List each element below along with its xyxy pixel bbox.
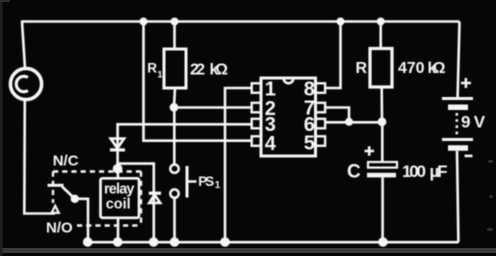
wire: +9V top rail	[21, 20, 460, 23]
wire: pin 8 Vcc wire	[325, 22, 341, 89]
svg-text:coil: coil	[106, 197, 131, 213]
wire: pin 7 discharge wire	[325, 108, 349, 122]
svg-text:R: R	[147, 61, 157, 76]
pin pads U1	[252, 83, 325, 146]
relay N/C fixed contact	[48, 184, 64, 187]
relay N/O contact	[52, 206, 59, 213]
svg-text:C: C	[347, 162, 361, 183]
diode D2	[149, 193, 161, 203]
wire: node into relay coil	[117, 171, 120, 179]
wire: C bottom to 0V rail	[381, 178, 384, 243]
node: pin7/pin6 junction	[345, 118, 353, 126]
node: junction R1 / pin2 / PS1	[170, 103, 179, 112]
svg-text:22: 22	[190, 61, 205, 78]
svg-text:100: 100	[402, 162, 426, 181]
wire: pin 6 threshold wire	[325, 121, 382, 124]
wire: relay coil bottom to 0V rail	[117, 218, 120, 242]
wire: battery bottom to 0V rail	[457, 151, 458, 242]
svg-text:1: 1	[157, 70, 162, 80]
wire: node down to capacitor C	[381, 122, 384, 162]
wire: pin 3 output wire	[118, 124, 252, 166]
svg-text:5: 5	[304, 133, 315, 155]
label relay coil	[104, 181, 135, 212]
svg-text:relay: relay	[104, 181, 135, 197]
svg-text:470: 470	[398, 60, 425, 77]
wire: right branch rail to battery	[458, 22, 460, 98]
node dots on top rail	[140, 18, 385, 26]
wire: pin 4 reset wire	[144, 22, 252, 141]
svg-text:N/O: N/O	[46, 219, 73, 236]
resistor R	[370, 49, 392, 88]
wire: R1 top stub	[173, 22, 176, 50]
IC U1 555 timer body	[261, 78, 316, 156]
node: pin6 / R / C junction	[378, 117, 387, 126]
wire: 0V bottom rail	[83, 241, 459, 244]
svg-text:kΩ: kΩ	[210, 61, 229, 78]
svg-text:kΩ: kΩ	[428, 60, 446, 77]
svg-text:V: V	[474, 113, 486, 132]
svg-text:N/C: N/C	[53, 153, 79, 170]
battery B1 9V	[442, 78, 473, 156]
wire: R bottom to node	[380, 87, 383, 122]
node: armature pivot	[71, 195, 79, 203]
svg-text:µF: µF	[430, 162, 448, 181]
pin numbers U1	[265, 78, 315, 154]
wire: pin 1 ground wire	[225, 88, 252, 242]
capacitor C	[365, 146, 398, 177]
diode D1	[110, 139, 125, 150]
wire: node down to PS1	[173, 109, 176, 164]
node dots on 0V rail	[83, 237, 388, 247]
relay armature	[62, 187, 75, 199]
wire: R top stub	[379, 22, 382, 49]
svg-text:R: R	[356, 60, 368, 77]
wire: pin 2 trigger wire	[174, 106, 252, 109]
wire: PS1 bottom to 0V rail	[173, 198, 176, 242]
svg-text:9: 9	[461, 113, 470, 132]
relay boundary (dashed)	[53, 172, 141, 226]
svg-text:PS: PS	[198, 174, 214, 189]
wire: R1 bottom to node	[174, 88, 175, 106]
push switch PS1	[170, 165, 196, 198]
wire: left lamp branch (bottom, to N/O contact)	[23, 100, 55, 214]
wire: node to D2 (flyback branch)	[118, 164, 154, 242]
svg-text:1: 1	[215, 180, 221, 191]
lamp	[10, 68, 41, 99]
resistor R1	[164, 49, 186, 88]
svg-text:4: 4	[265, 133, 277, 155]
relay coil box	[101, 178, 140, 218]
wire: armature common to 0V rail	[78, 199, 88, 242]
wire: left lamp branch (top)	[22, 22, 25, 69]
node: relay coil top junction	[113, 164, 123, 174]
